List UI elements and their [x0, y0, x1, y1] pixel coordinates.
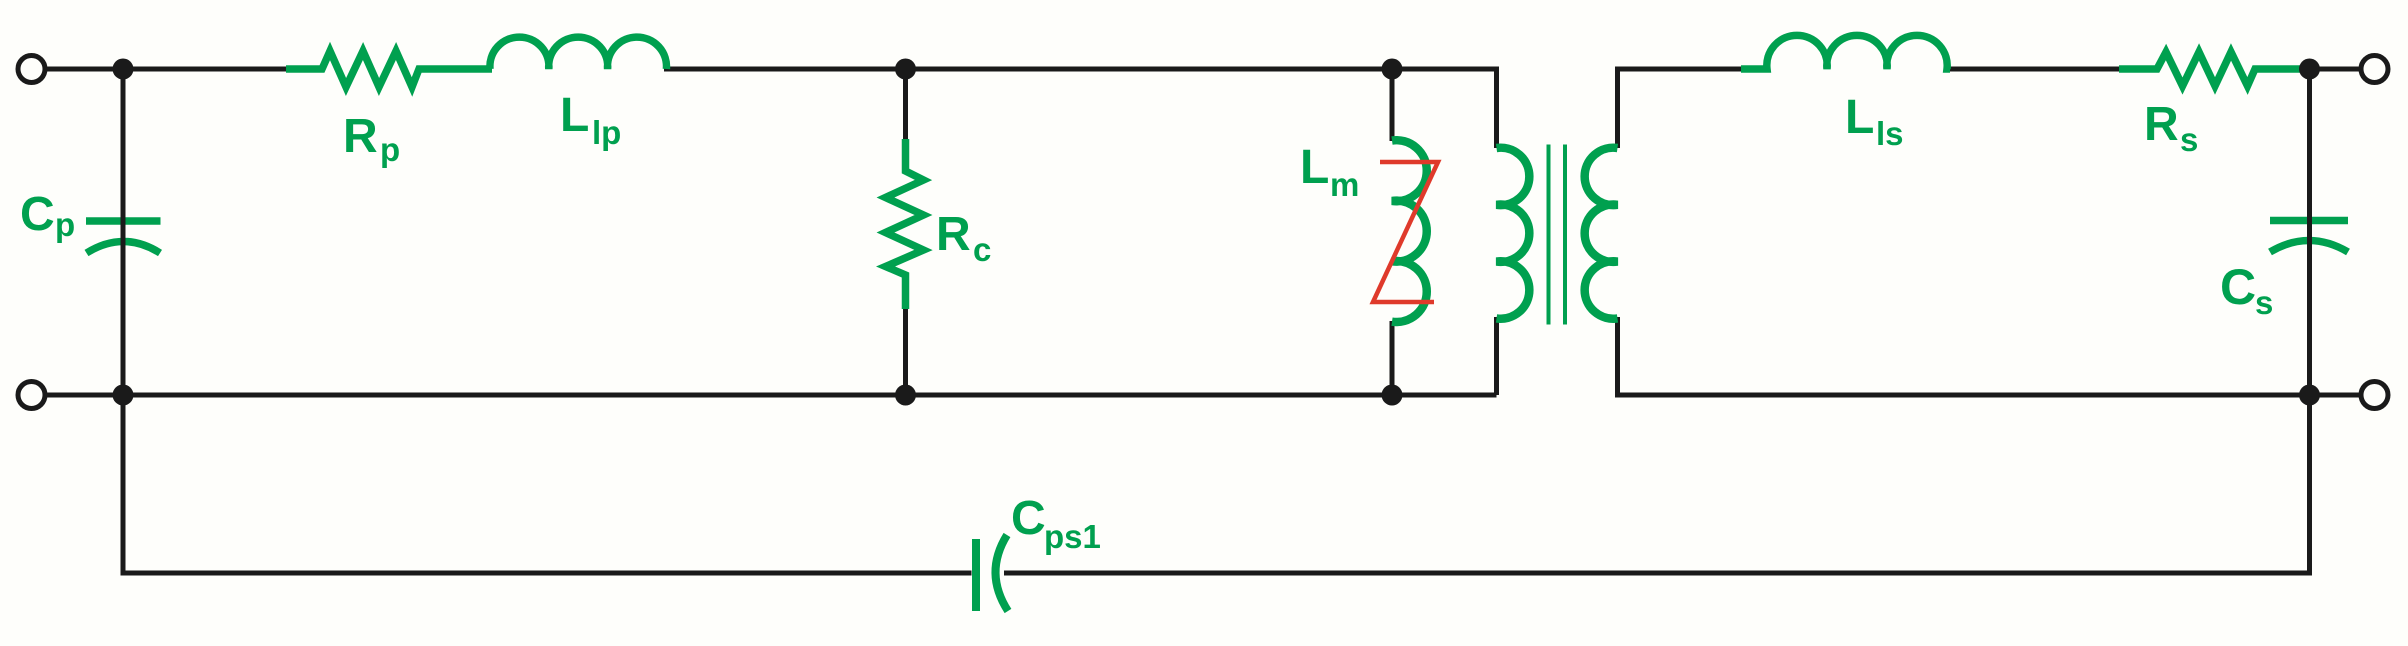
wire Lm top stub	[1390, 69, 1395, 141]
junction node Lm bottom	[1382, 385, 1403, 406]
wire left vertical through Cp down to coupling loop	[123, 69, 972, 573]
transformer T1 core line right	[1563, 145, 1567, 325]
wire Rc top stub	[903, 69, 908, 140]
junction node bottom-right	[2299, 385, 2320, 406]
svg-text:R: R	[936, 208, 971, 261]
wire secondary bottom stub and rail	[1618, 317, 2310, 395]
capacitor Cp top plate	[86, 217, 161, 225]
saturable-core indicator (red Z) on Lm	[1373, 162, 1438, 302]
resistor Rs	[2119, 52, 2307, 86]
wire top-right to terminal	[2306, 67, 2361, 72]
transformer T1 primary winding	[1497, 148, 1530, 319]
svg-text:ls: ls	[1876, 115, 1904, 152]
terminal bottom-right	[2361, 382, 2388, 409]
terminal top-right	[2361, 56, 2388, 83]
wire Lm bottom stub	[1390, 321, 1395, 395]
wire overdraw across Cs plates	[2307, 214, 2312, 257]
label Llp	[560, 89, 621, 151]
svg-text:R: R	[343, 110, 378, 163]
svg-text:p: p	[55, 206, 75, 243]
svg-text:L: L	[1845, 91, 1874, 144]
wire right vertical rail through Cs	[2307, 69, 2312, 395]
label Rc	[936, 208, 991, 268]
junction node top-right	[2299, 59, 2320, 80]
junction node bottom-left	[113, 385, 134, 406]
svg-text:s: s	[2180, 121, 2198, 158]
terminal bottom-left	[18, 382, 45, 409]
svg-text:p: p	[380, 131, 400, 168]
svg-text:L: L	[560, 89, 589, 142]
transformer T1 secondary winding	[1585, 148, 1618, 319]
junction node Lm top	[1382, 59, 1403, 80]
junction node top-left	[113, 59, 134, 80]
svg-text:c: c	[973, 231, 991, 268]
svg-text:L: L	[1300, 141, 1329, 194]
wire bottom-left rail	[45, 393, 1497, 398]
label Lm	[1300, 141, 1359, 203]
svg-text:lp: lp	[592, 114, 621, 151]
wire Rc bottom stub	[903, 308, 908, 395]
svg-text:C: C	[20, 188, 55, 241]
label Cps1	[1011, 492, 1101, 555]
svg-text:C: C	[1011, 492, 1046, 545]
capacitor Cp bottom curved plate	[87, 242, 161, 254]
wire bottom-right to terminal	[2310, 393, 2362, 398]
capacitor Cps1 right curved plate	[995, 535, 1008, 611]
inductor Lm	[1392, 140, 1427, 322]
inductor Lls	[1741, 35, 1950, 69]
inductor Llp	[490, 37, 667, 69]
svg-text:ps1: ps1	[1044, 518, 1101, 555]
label Cp	[20, 188, 75, 243]
wire top-left rail	[45, 67, 286, 72]
label Cs	[2220, 259, 2273, 321]
resistor Rp	[286, 51, 492, 87]
capacitor Cps1 left straight plate	[972, 539, 980, 611]
transformer T1 core line left	[1547, 145, 1551, 325]
wire top-middle rail with primary top stub	[664, 69, 1497, 148]
svg-text:R: R	[2144, 98, 2179, 151]
wire coupling loop right side	[1004, 395, 2310, 573]
junction node Rc top	[895, 59, 916, 80]
junction node Rc bottom	[895, 385, 916, 406]
wire overdraw across Cp plates	[121, 215, 126, 258]
capacitor Cs top plate	[2270, 217, 2348, 225]
label Rs	[2144, 98, 2198, 158]
wire between Lls and Rs	[1948, 67, 2122, 72]
svg-text:m: m	[1330, 166, 1359, 203]
wire primary bottom stub	[1494, 317, 1499, 395]
capacitor Cs bottom curved plate	[2270, 241, 2348, 253]
svg-text:C: C	[2220, 259, 2256, 315]
svg-text:s: s	[2255, 284, 2273, 321]
wire secondary top stub and rail	[1618, 69, 1742, 148]
label Rp	[343, 110, 400, 168]
resistor Rc	[886, 139, 924, 309]
label Lls	[1845, 91, 1904, 152]
terminal top-left	[18, 56, 45, 83]
